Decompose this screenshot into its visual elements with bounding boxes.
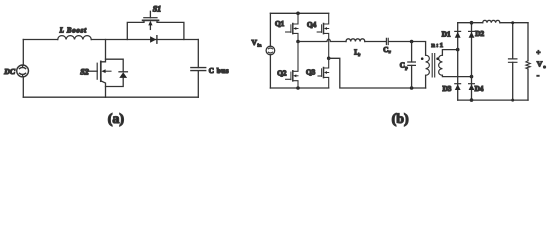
svg-text:o: o	[543, 64, 546, 69]
svg-text:S1: S1	[153, 5, 161, 14]
wire: S1 left riser	[127, 21, 144, 40]
svg-text:in: in	[258, 42, 262, 47]
transistor S1 gate lead	[149, 11, 151, 17]
inductor Lf output filter	[483, 20, 500, 22]
svg-text:Q4: Q4	[307, 21, 317, 29]
svg-text:n:1: n:1	[431, 42, 444, 49]
wire: left rail bottom segment	[22, 77, 24, 97]
svg-text:D1: D1	[442, 30, 451, 38]
diode D_S1 on top rail	[150, 36, 156, 43]
inductor Lr	[346, 39, 365, 42]
junction dot Q1 drain on top rail	[296, 12, 300, 16]
junction dot Cf top	[511, 21, 514, 24]
junction dot Cf bottom	[511, 99, 514, 102]
transistor S1 channel bar	[143, 19, 159, 21]
inductor L Boost	[58, 36, 92, 40]
transistor Q2	[293, 42, 298, 72]
wire: bridge bottom rail	[270, 87, 328, 89]
junction dot Cp bottom	[410, 86, 414, 90]
diode D_S2 (body diode)	[119, 71, 127, 73]
wire: output top rail left	[458, 22, 483, 24]
transformer T1 primary winding	[426, 55, 430, 75]
transistor Q3	[324, 58, 329, 68]
wire: output top rail right	[500, 22, 528, 24]
wire: right rail bottom segment	[197, 71, 199, 98]
wire: left rail top segment	[22, 40, 24, 66]
svg-text:V: V	[537, 59, 543, 68]
transistor Q1	[293, 13, 298, 24]
wire: top rail left of inductor	[23, 39, 57, 41]
svg-text:Q2: Q2	[277, 69, 287, 77]
transistor S2 gate bar	[96, 63, 98, 79]
transistor S1 body arrow	[149, 25, 151, 30]
wire: Cr to primary top	[389, 42, 426, 56]
svg-text:r: r	[389, 49, 391, 54]
svg-text:Q3: Q3	[306, 68, 316, 76]
node A: left leg midpoint dot	[296, 40, 300, 44]
transistor S2 channel bar	[100, 61, 102, 81]
wire: bridge top rail	[270, 12, 328, 14]
wire: node A to Lr with hop over right leg	[298, 39, 346, 41]
wire: rectifier left branch	[457, 23, 459, 100]
wire: bottom rail	[23, 96, 198, 98]
DC source V1 circle	[17, 65, 29, 77]
wire: top rail right of inductor	[91, 39, 198, 41]
svg-text:D2: D2	[475, 30, 484, 38]
wire: right rail top segment	[197, 40, 199, 68]
wire: S2 diode bottom connector	[106, 78, 124, 87]
wire: bridge left rail bottom	[269, 55, 271, 88]
transistor S1 gate bar	[144, 17, 157, 19]
transistor S2 gate lead	[86, 70, 97, 72]
wire: return rail up to primary bottom	[425, 75, 427, 88]
junction dot secondary bottom	[470, 75, 474, 79]
junction dot D2 top	[470, 21, 474, 25]
junction dot Q2 source on bottom rail	[296, 86, 300, 90]
diode D2	[469, 30, 475, 32]
transformer polarity dot primary	[421, 57, 424, 60]
resistor R load zigzag	[526, 61, 530, 69]
wire: output cap branch top	[512, 23, 514, 59]
diode D3	[455, 83, 461, 85]
wire: rectifier right branch	[471, 23, 473, 100]
wire: S1 right riser	[157, 21, 184, 40]
svg-text:Q1: Q1	[275, 20, 285, 28]
wire: Lr to Cr	[365, 41, 386, 43]
svg-text:DC: DC	[3, 67, 16, 76]
transistor Q4	[324, 13, 329, 24]
source Vin circle	[266, 46, 275, 55]
wire: S2 diode top connector	[106, 59, 124, 71]
transformer T1 secondary winding	[439, 55, 443, 75]
transformer polarity dot secondary	[436, 57, 439, 60]
wire: S2 drain drop from top rail	[101, 40, 106, 62]
junction dot Cp top	[410, 40, 414, 44]
wire: load branch bottom	[527, 69, 529, 100]
wire: S2 source to bottom junction	[101, 81, 106, 97]
wire: output bottom rail	[458, 99, 528, 101]
DC source internal arcs	[22, 65, 24, 77]
source Vin internal arcs	[268, 48, 272, 53]
node B: right leg midpoint dot	[327, 57, 331, 61]
transformer T1 core	[432, 54, 435, 78]
wire: node B return path to transformer primary bottom	[329, 58, 426, 88]
wire: load branch top	[527, 23, 529, 61]
capacitor Cr plates	[386, 38, 388, 44]
wire: output cap branch bottom	[512, 62, 514, 100]
junction dot secondary top	[456, 48, 460, 52]
junction dot D4 bottom	[470, 98, 474, 102]
svg-text:S2: S2	[80, 68, 88, 77]
capacitor Cp branch wire top	[411, 42, 413, 62]
capacitor Cf plates	[509, 59, 517, 62]
svg-text:D3: D3	[443, 85, 452, 93]
svg-text:(b): (b)	[392, 112, 409, 127]
transistor S2 body arrow	[105, 70, 111, 72]
svg-text:(a): (a)	[108, 112, 125, 127]
diode D1	[455, 30, 461, 32]
svg-text:-: -	[537, 70, 540, 79]
svg-text:L Boost: L Boost	[59, 27, 88, 34]
diode D4	[469, 83, 475, 85]
svg-text:C bus: C bus	[209, 67, 229, 75]
svg-text:+: +	[536, 48, 540, 57]
capacitor C bus	[191, 68, 206, 71]
svg-text:r: r	[358, 52, 360, 57]
svg-text:D4: D4	[475, 85, 484, 93]
wire: secondary bottom to rectifier	[442, 75, 471, 76]
wire: bridge left rail top	[269, 13, 271, 46]
capacitor Cp plates	[408, 62, 416, 65]
wire: secondary top to rectifier	[442, 50, 457, 56]
capacitor Cp branch wire bottom	[411, 66, 413, 89]
